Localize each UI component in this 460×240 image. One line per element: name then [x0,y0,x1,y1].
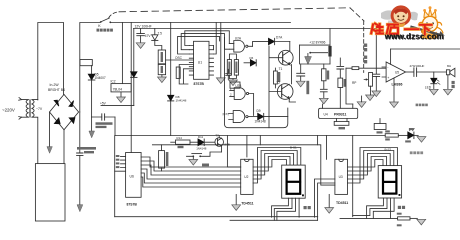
label R16 blobs [397,213,402,227]
wire+arrow: bridge left corner to heater [49,112,51,147]
push switch S1 [187,152,222,160]
svg-text:8YB: 8YB [224,143,230,147]
relay K1 coil [300,29,332,65]
svg-text:D11: D11 [198,135,203,139]
wire left of T1 base [269,46,283,128]
svg-text:R14: R14 [177,136,183,140]
U1 right pins [209,46,214,76]
resistor R2 vertical box [158,64,165,74]
watermark pen [412,27,446,36]
svg-text:[CX]: [CX] [223,112,229,116]
display1 DS1 [282,165,306,198]
ground G4 [366,95,375,101]
diode D8 1N4148 on x170.7 [168,95,174,100]
gates enclosure box [225,38,288,128]
label small box blob [377,131,383,133]
bus verticals up to IC2 [315,179,335,217]
svg-text:U6: U6 [130,175,134,179]
svg-text:+12 8YR96: +12 8YR96 [309,40,325,44]
capacitor C5 box [234,60,238,76]
svg-text:1N4148: 1N4148 [196,147,207,151]
svg-text:7.5: 7.5 [158,32,163,36]
MCU2 U6 box [126,153,142,198]
capacitor C2 47V/1000uF on +rail [77,112,83,212]
label buzzer chinese blobs [416,104,428,107]
wire: long vertical x131.2 [130,23,132,136]
transistor T7 small [215,136,224,153]
label power-indicator chinese blobs [410,151,423,154]
op-amp U5 [382,49,460,102]
ground under C3 [136,43,145,49]
svg-text:IC2: IC2 [111,80,116,84]
verticals from top rail [227,136,352,217]
wire: rail y28.5 [134,28,377,30]
gate U2C [229,111,248,123]
small resistor R3a [176,67,180,78]
label LED2 blobs [405,128,414,143]
svg-text:1N4148: 1N4148 [176,99,187,103]
resistor R3 vertical [274,71,278,84]
label S1 blobs [202,164,209,167]
label speaker chinese blobs [452,81,455,88]
svg-text:+: + [387,76,389,80]
nested wires left of U1 [179,65,193,85]
inner rail y144.8 [152,145,335,185]
svg-text:T7: T7 [215,134,219,138]
MCU2 left pin labels blobs [116,155,120,168]
svg-text:~220V: ~220V [2,108,15,113]
label R15 [385,130,390,140]
bottom section outer box [115,136,386,217]
svg-text:U5: U5 [395,70,399,74]
wire+arrow below C1 [91,117,93,131]
capacitor C3 [137,29,145,43]
label C1 4.7V/2200uF [96,122,113,128]
speaker [446,68,455,89]
svg-text:PR9311: PR9311 [334,113,347,117]
heater load box [35,164,65,221]
svg-text:OSC: OSC [175,56,183,60]
fuse box on rect2 [80,60,92,66]
diode D11 1N4148 [198,139,215,146]
svg-text:12V 100HF: 12V 100HF [135,25,152,29]
label C6 vertical [306,81,309,94]
relay arm [289,45,327,64]
gate U2B [230,88,254,116]
ground right of LED2 [417,137,426,143]
svg-text:470/100HF: 470/100HF [410,64,425,68]
svg-text:B-S2: B-S2 [385,148,392,152]
label crystal blob [339,127,346,129]
capacitor C6 electrolytic [297,64,305,81]
svg-text:U2B: U2B [235,84,241,88]
svg-text:BRGHT B4: BRGHT B4 [48,88,65,92]
resistor R5 horizontal [323,67,387,104]
label digit1 chinese blobs [304,206,311,209]
nested wrap wires over U1 [185,31,230,46]
capacitor C1 horizontal [92,114,115,120]
svg-text:T1: T1 [279,67,283,71]
LED2 power indicator [408,129,418,139]
diode D10 [253,38,290,46]
bridge rectifier B [50,94,79,129]
verticals from U1 right pins [214,23,221,78]
capacitor C4 box [227,60,231,76]
MCU2 left pins [115,156,126,171]
svg-text:RP: RP [352,81,356,85]
resistor R14 [171,140,198,144]
transformer T [19,98,38,164]
svg-text:U4: U4 [324,113,328,117]
svg-text:TD4511: TD4511 [241,202,253,206]
watermark red text WEIKU char1 [371,24,383,34]
labels R1 R2 vertical blobs [161,52,163,73]
wire: AC loop right (rect2 top rail) [80,23,100,113]
svg-text:T2: T2 [276,81,280,85]
ground under LED1 [429,89,438,95]
power indicator resistor R15 [385,134,408,137]
IC2 CD4511 box [335,159,348,194]
capacitor C9 [414,68,447,77]
timer U4 PR9311 box [319,108,358,118]
svg-text:U1: U1 [198,60,202,64]
MCU2 right bus to IC1 [141,157,241,167]
display2 bottom pins wrap left [367,198,384,218]
svg-text:U3: U3 [339,175,343,179]
switch K [100,18,111,23]
U1 left pins [189,46,193,76]
wire: AC loop left (rect1) [38,23,64,101]
label digit2 chinese blobs [398,206,405,209]
watermark badge mascot [392,7,410,27]
svg-text:87S7B: 87S7B [127,202,138,206]
resistor R1 vertical box [158,50,165,64]
ground under R6 [319,98,328,104]
IC1 CD4511 box [241,159,253,194]
svg-text:+5V: +5V [100,102,107,106]
watermark red text char4 [420,25,432,35]
diode D6 on x133.8 [131,29,137,106]
svg-text:TD4511: TD4511 [336,201,348,205]
svg-text:In-2W: In-2W [50,83,60,87]
wire: vertical x122.4 to 78L04 [121,23,123,84]
svg-text:D9: D9 [257,109,261,113]
ground under R2 [161,75,163,77]
resistor R4 vertical [322,69,326,81]
crystal under U4 [334,119,349,126]
display1 bottom pins wrap left [272,198,289,217]
svg-text:78L04: 78L04 [113,88,123,92]
ground G6 under op-amp [390,102,399,108]
output wire [406,71,414,73]
bottom bus lines [115,217,398,219]
diode D12 near caps [244,62,250,64]
svg-text:47V: 47V [145,34,152,38]
resistor R16 bottom [398,217,418,220]
wire T2 emitter to C6 node [289,99,295,102]
svg-text:D7A: D7A [276,36,283,40]
wire: main rail y22.5 [111,22,291,24]
ground under C6 [296,81,305,87]
gate U2A [229,41,252,53]
wires into U4 top [323,104,353,108]
svg-text:U2A: U2A [235,37,242,41]
diode D9 1N4148 [248,113,319,119]
svg-text:LM386: LM386 [392,83,403,87]
transistor T2 [277,84,293,100]
svg-text:1N4007: 1N4007 [95,76,106,80]
display2 DS2 [378,166,401,198]
bus nest1 IC1 to display1 [253,148,301,184]
wire: bridge top up (already in rect1) / bridge bottom down [63,130,65,164]
ground under S1 [189,160,198,166]
small box U3B [230,82,240,88]
watermark crown mascot [418,6,443,39]
dashed linkage line [109,12,119,18]
ground under IC2 [328,194,330,207]
svg-text:U2: U2 [244,175,248,179]
ground right of R16 [417,219,426,225]
LED1 [431,72,440,89]
transistor T1 [278,42,293,84]
watermark gray wings [381,10,418,23]
capacitor C7 [337,58,346,108]
cap connections [229,54,236,80]
svg-text:~7V: ~7V [36,107,43,111]
bus nest2 IC2 to display2 [348,148,398,184]
svg-text:D6: D6 [250,56,254,60]
labels C4 C5 vertical blobs [228,62,237,74]
wire: long vertical x170.7 [170,23,172,136]
small box under U4 right [374,119,386,130]
label alarm text blobs (vertical, right of dashed line) [364,44,367,64]
label C2 [77,147,96,153]
wire OSC to U1 [166,59,194,61]
svg-text:B-S1: B-S1 [290,146,297,150]
watermark red text char3 [405,28,419,31]
capacitor C8 [373,29,380,92]
potentiometer RP [364,68,373,95]
label switch chinese [97,29,113,32]
watermark red text char2 [387,25,398,34]
caps pair left of U2B [226,69,240,79]
resistor R13 vertical [159,145,165,171]
wire C1 right down to bottom box [114,117,116,136]
diode D5 1N4007 [88,66,95,118]
ground right of U1 [216,78,225,84]
regulator 78L04 box [111,84,131,92]
svg-text:87S7B: 87S7B [194,82,205,86]
ground under 78L04 [120,92,122,97]
label R3 blobs [278,72,280,82]
MCU U1 box [194,41,210,79]
label R13 vertical blob [166,152,169,166]
wire vertical x131.2 into MCU2 [130,136,132,153]
zener D7 [152,29,162,51]
svg-text:www.dzsc.com: www.dzsc.com [384,33,444,42]
ground under speaker [444,89,453,95]
wire +5V out [101,105,134,107]
svg-text:1N4148: 1N4148 [255,120,266,124]
